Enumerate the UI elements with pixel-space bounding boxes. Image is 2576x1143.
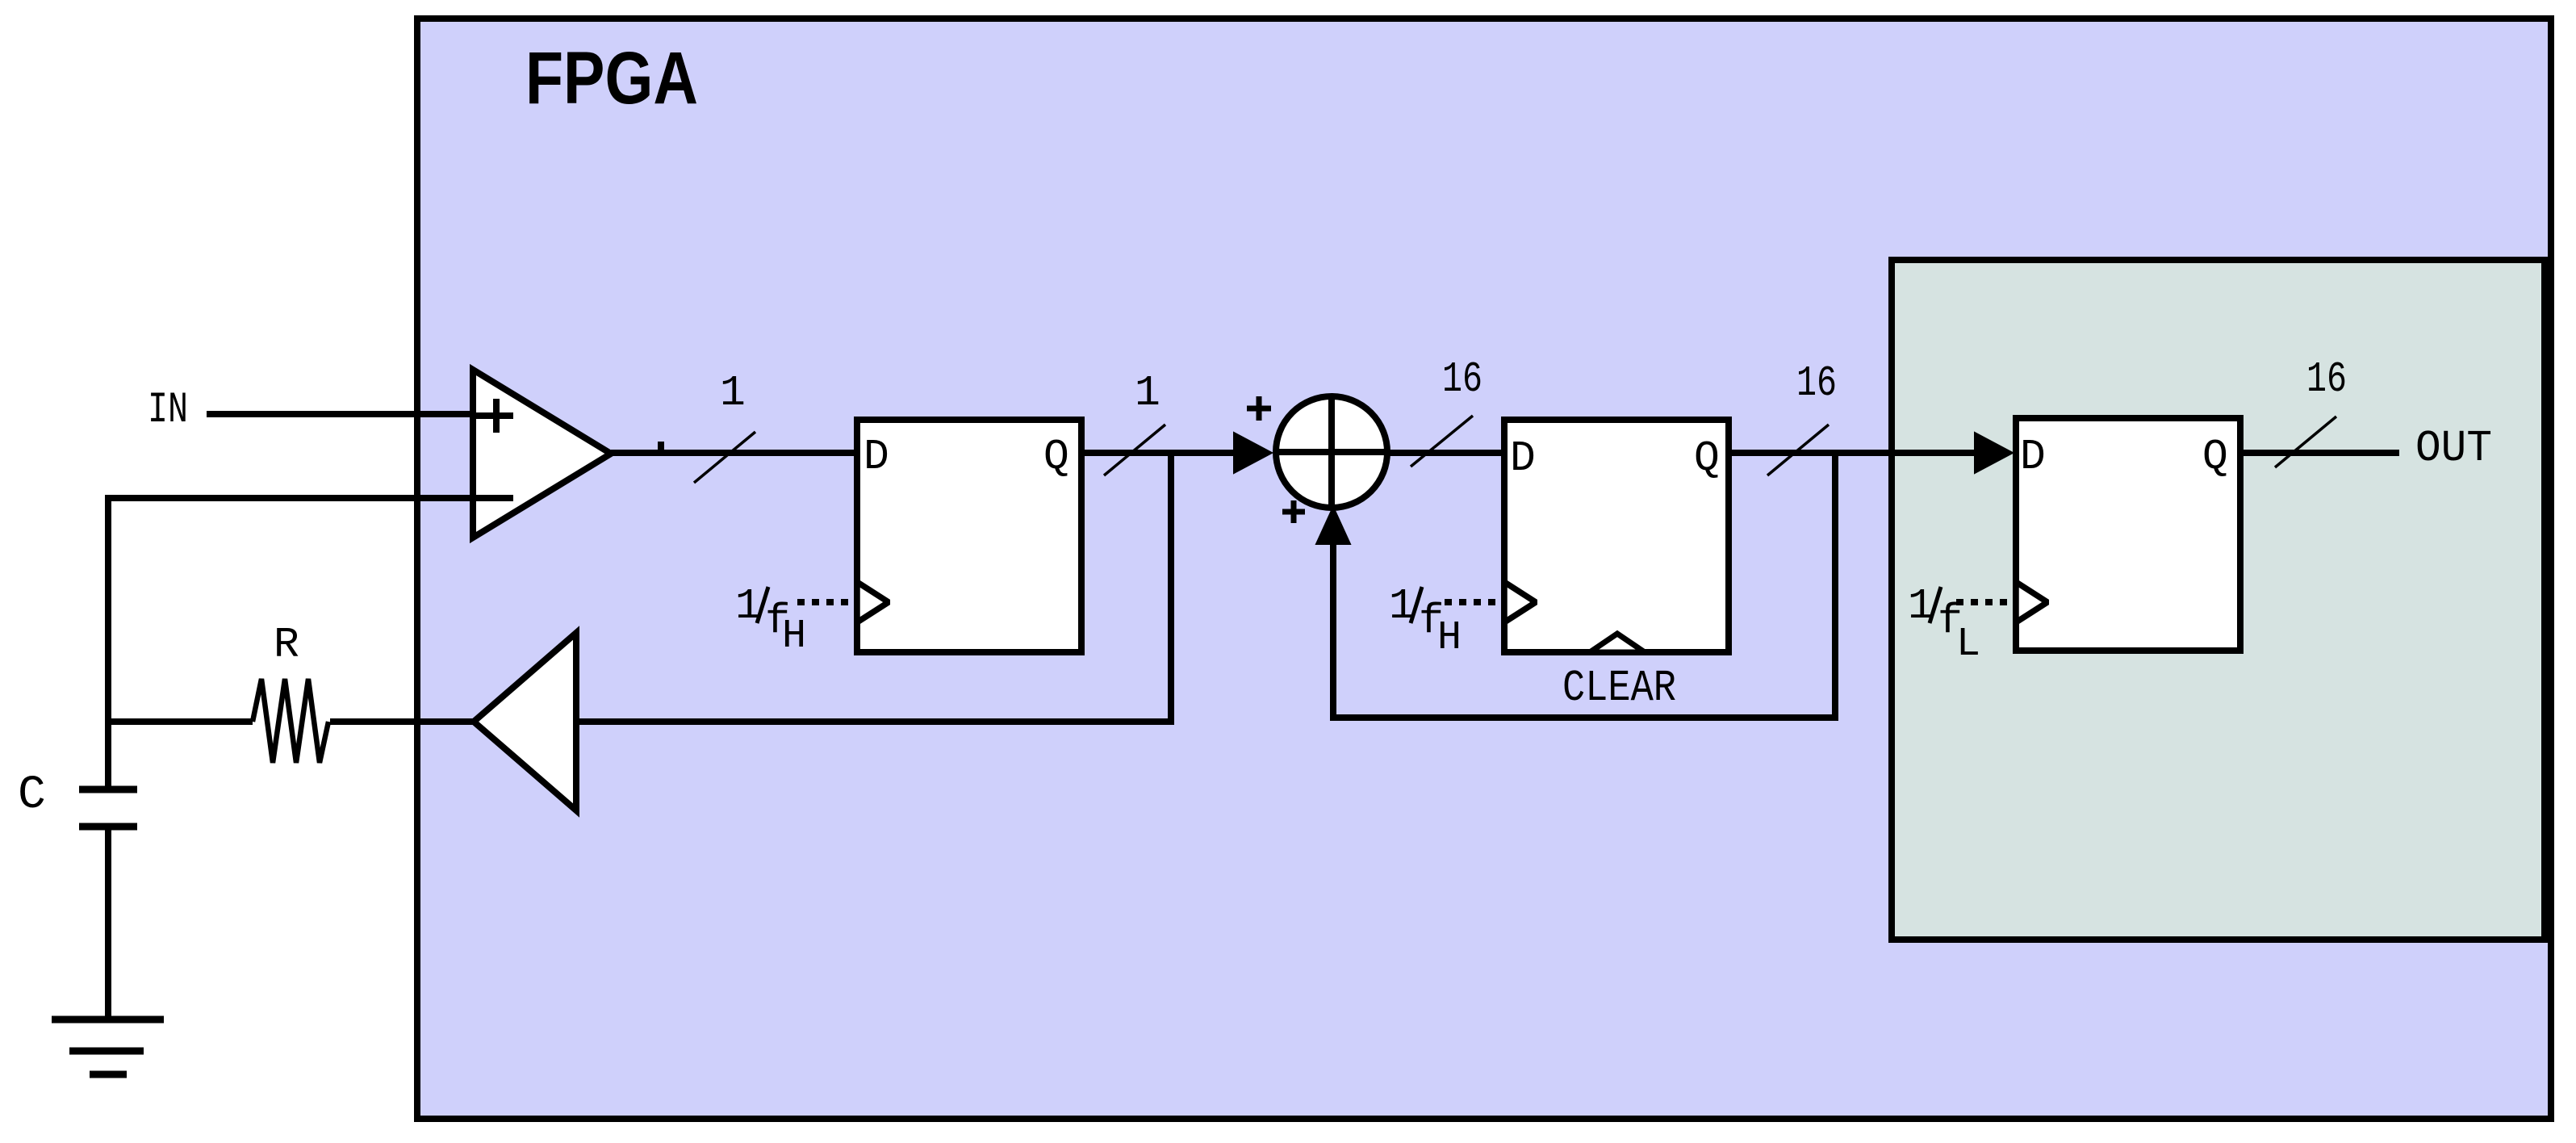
svg-text:Q: Q [2202, 433, 2228, 481]
bus slash 16-bit after adder [1411, 416, 1473, 467]
wire node C to resistor [105, 718, 253, 725]
wire resistor to inverter tip [330, 718, 476, 725]
bus slash 1-bit after FF1 [1104, 425, 1165, 475]
comparator + input sign [476, 412, 513, 419]
capacitor C top plate [79, 786, 137, 793]
wire comparator - input feedback [108, 498, 473, 722]
svg-text:OUT: OUT [2415, 423, 2492, 474]
low-frequency clock domain block (green) [1892, 260, 2545, 940]
adder + sign bottom input [1282, 509, 1305, 515]
flip-flop U5 CLEAR bump [1590, 634, 1645, 652]
svg-text:C: C [18, 769, 46, 822]
svg-text:Q: Q [1694, 434, 1720, 483]
svg-text:H: H [1437, 615, 1462, 661]
bus slash 16-bit after FF2 [1767, 425, 1829, 475]
flip-flop U5 [1504, 420, 1729, 652]
feedback wire FF2 Q down to adder bottom input [1333, 453, 1835, 718]
comparator U1 [473, 370, 611, 538]
flip-flop U6 clock chevron [2016, 582, 2047, 622]
ground symbol [52, 1016, 164, 1024]
svg-text:IN: IN [148, 386, 188, 435]
svg-text:D: D [1510, 434, 1536, 483]
svg-text:16: 16 [1796, 359, 1837, 408]
svg-text:1: 1 [720, 369, 746, 417]
resistor R zigzag [253, 679, 328, 763]
arrowhead into FF3 D [1975, 433, 2013, 473]
bus slash 16-bit after FF3 [2275, 417, 2336, 467]
flip-flop U3 clock dotted line [797, 599, 855, 605]
flip-flop U6 [2016, 418, 2240, 651]
wire IN to comparator + input [207, 411, 473, 417]
inverter U2 [474, 633, 576, 810]
svg-text:FPGA: FPGA [525, 37, 698, 119]
svg-text:D: D [2020, 433, 2046, 481]
FPGA block [417, 19, 2551, 1119]
adder U4 [1276, 396, 1387, 508]
wire FF3 Q to OUT [2237, 450, 2399, 456]
arrowhead into adder left [1234, 433, 1272, 473]
svg-text:L: L [1956, 622, 1980, 668]
wire adder to FF2 D [1387, 450, 1509, 456]
svg-text:R: R [274, 621, 299, 669]
svg-text:16: 16 [1442, 355, 1482, 404]
arrowhead up into adder bottom [1316, 507, 1350, 544]
flip-flop U3 clock chevron [857, 582, 889, 622]
svg-text:H: H [782, 613, 806, 659]
capacitor C bottom plate [79, 823, 137, 831]
wire capacitor top lead [105, 718, 111, 786]
wire comparator output to FF1 D [611, 450, 860, 456]
adder + sign left input [1247, 406, 1271, 412]
svg-text:D: D [864, 433, 889, 481]
svg-text:1: 1 [1135, 369, 1160, 417]
wire capacitor to ground [105, 830, 111, 1019]
flip-flop U3 [857, 420, 1081, 652]
bus slash 1-bit after comparator [694, 432, 755, 483]
junction tick on comparator output [658, 442, 664, 453]
svg-text:Q: Q [1043, 433, 1069, 481]
flip-flop U6 clock dotted line [1956, 599, 2014, 605]
wire FF1 Q to adder [1078, 450, 1236, 456]
comparator - input sign [476, 495, 513, 501]
feedback wire FF1 Q down to inverter [576, 453, 1171, 722]
svg-text:CLEAR: CLEAR [1562, 663, 1676, 714]
flip-flop U5 clock chevron [1504, 582, 1536, 622]
wire FF2 Q to FF3 D [1727, 450, 1976, 456]
svg-text:16: 16 [2306, 355, 2347, 404]
flip-flop U5 clock dotted line [1445, 599, 1503, 605]
